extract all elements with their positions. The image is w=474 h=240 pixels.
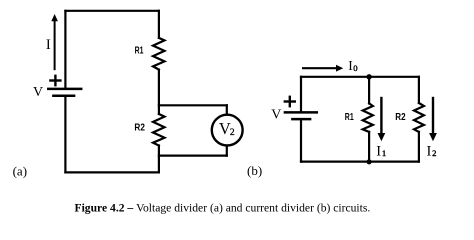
wire: voltmeter V2 bottom stub (226, 146, 228, 156)
wire: R2 branch vertical lower (circuit b) (418, 132, 420, 162)
battery V (circuit b) long positive plate (285, 111, 317, 114)
current arrow I2 (circuit b, pointing down) (432, 98, 434, 134)
battery V (circuit a) long positive plate (48, 88, 81, 91)
svg-text:(b): (b) (247, 163, 262, 178)
current arrow I1 (circuit b, pointing down) (380, 98, 382, 134)
resistor R1 (circuit a) zigzag (153, 38, 165, 70)
svg-text:Figure 4.2 – Voltage divider (: Figure 4.2 – Voltage divider (a) and cur… (75, 201, 371, 214)
svg-text:I: I (46, 37, 51, 53)
wire: circuit (a) right vertical upper (top corner to R1) (158, 11, 160, 38)
wire: R2 branch vertical upper (circuit b) (418, 77, 420, 103)
junction node dot top of R1 branch (366, 74, 371, 79)
svg-text:I0: I0 (348, 58, 358, 73)
wire: R1 branch vertical lower (circuit b) (368, 132, 370, 162)
wire: circuit (a) right vertical between R1 and R2 (158, 70, 160, 114)
battery V (circuit b) short negative plate (292, 118, 310, 121)
plus sign of battery (circuit b) (285, 97, 295, 106)
current arrow I0 (circuit b, pointing right) (303, 67, 336, 69)
svg-text:I2: I2 (427, 143, 437, 159)
resistor R1 (circuit b) zigzag (363, 103, 373, 131)
wire: circuit (b) bottom horizontal (301, 161, 419, 163)
wire: circuit (a) left vertical upper (top corner to battery) (64, 11, 66, 88)
svg-text:V: V (271, 107, 281, 122)
svg-text:I1: I1 (376, 143, 386, 159)
wire: circuit (a) top horizontal (65, 10, 158, 12)
wire: circuit (b) left vertical upper (corner to battery) (300, 77, 302, 112)
resistor R2 (circuit b) zigzag (414, 103, 424, 132)
svg-text:V2: V2 (219, 119, 235, 138)
wire: circuit (a) right vertical below R2 (158, 146, 160, 173)
wire: voltmeter V2 top stub (226, 105, 228, 114)
resistor R2 (circuit a) zigzag (153, 114, 165, 146)
wire: circuit (b) top horizontal (301, 76, 419, 78)
wire: R1 branch vertical upper (circuit b) (368, 77, 370, 104)
wire: branch from node above R2 to voltmeter V2 top (159, 104, 227, 106)
wire: branch from voltmeter V2 bottom to node below R2 (159, 155, 227, 157)
svg-text:R1: R1 (135, 44, 144, 56)
svg-text:R1: R1 (345, 111, 354, 123)
svg-text:R2: R2 (395, 111, 405, 123)
current arrow I (circuit a, pointing up) (54, 21, 56, 70)
svg-text:(a): (a) (13, 163, 27, 178)
svg-text:R2: R2 (134, 121, 145, 133)
wire: circuit (a) bottom horizontal (65, 171, 158, 173)
wire: circuit (b) left vertical lower (battery to bottom corner) (300, 120, 302, 161)
battery V (circuit a) short negative plate (53, 94, 74, 97)
wire: circuit (a) left vertical lower (battery to bottom corner) (64, 97, 66, 173)
svg-text:V: V (33, 85, 43, 100)
junction node dot bottom of R1 branch (367, 159, 372, 164)
plus sign of battery (circuit a) (50, 76, 60, 85)
voltmeter V2 circle (circuit a) (212, 115, 243, 146)
